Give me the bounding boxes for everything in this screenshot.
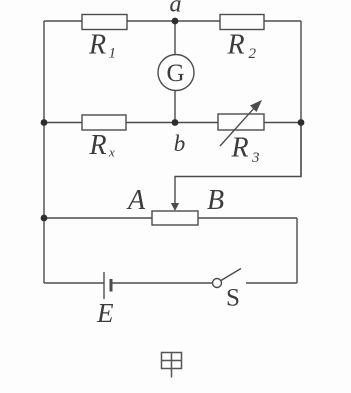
svg-text:B: B	[207, 185, 224, 216]
svg-text:G: G	[166, 60, 184, 87]
svg-text:2: 2	[249, 46, 257, 62]
svg-text:A: A	[126, 185, 146, 216]
svg-text:3: 3	[251, 150, 260, 166]
svg-text:E: E	[96, 298, 114, 328]
svg-text:R: R	[88, 30, 106, 61]
svg-text:x: x	[108, 145, 115, 160]
svg-text:S: S	[226, 285, 240, 312]
svg-text:a: a	[170, 0, 182, 18]
svg-text:R: R	[231, 133, 249, 164]
svg-text:1: 1	[109, 46, 117, 62]
svg-text:R: R	[89, 130, 107, 161]
svg-text:R: R	[227, 30, 245, 61]
svg-text:b: b	[174, 131, 186, 156]
